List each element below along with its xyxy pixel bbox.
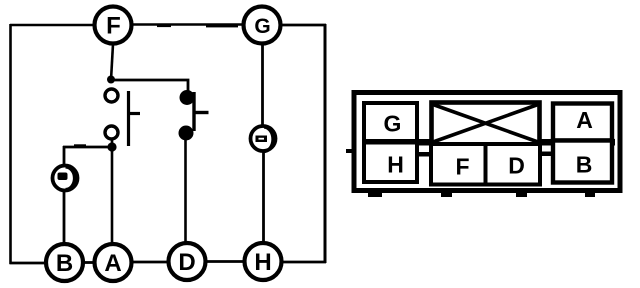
scan bump on top wire left of G [206,24,238,27]
answer box B [553,141,612,183]
junction dot below F [107,76,115,84]
scan speck below panel 3 [516,193,527,197]
answer box D [486,144,541,185]
svg-text:D: D [508,153,525,179]
scan blob on lamp branch wire [74,144,86,147]
switch S1 open contact top [105,89,118,102]
switch S1 actuator blade [127,91,130,146]
lamp L2 [251,126,276,152]
answer box crossed-out [432,103,540,145]
node G [244,7,281,44]
wire G down to lamp2 [261,44,264,126]
svg-text:A: A [576,107,593,133]
node A [95,244,132,281]
wire top frame right of G [282,24,326,27]
node F [95,7,132,44]
wire D to H [205,260,245,263]
wire top frame between F and G [133,23,242,26]
svg-text:F: F [455,154,469,180]
svg-text:F: F [106,13,121,40]
node B [46,244,83,281]
switch S2 tick [194,111,209,114]
junction dot above A [107,142,116,151]
answer box F [431,144,486,185]
svg-text:B: B [56,250,73,277]
switch S1 open contact bottom [105,126,118,139]
switch S2 contact top [180,90,195,105]
switch S2 blade [192,92,195,131]
wire down to lamp1 [63,146,66,165]
wire junction to right switch [111,80,188,91]
switch S2 contact bottom [179,126,194,141]
wire top frame left of F [10,24,93,27]
svg-text:H: H [387,152,404,178]
wire A to D [131,261,169,264]
svg-text:G: G [254,15,270,38]
scan speck below panel 1 [368,193,382,197]
answer box G [364,103,417,141]
svg-text:B: B [576,152,593,178]
bridge bar between H and F boxes [417,152,432,157]
wire B to A [83,261,95,264]
wire lamp2 to H [262,151,265,244]
wire junction to lamp branch [63,146,112,149]
answer box H [364,143,417,183]
wire F to junction [111,44,113,80]
wire right frame vertical [324,24,327,263]
lamp L1 [53,166,78,191]
node D [169,243,206,280]
scan speck below panel 2 [441,193,452,197]
bridge bar between D and B boxes [541,152,554,157]
wire left frame vertical [9,24,12,264]
scan speck below panel 4 [585,193,595,197]
wire S1 lower contact to A [111,139,114,244]
wire bottom frame to B [10,262,47,265]
wire lamp1 to B [63,191,66,244]
wire S2 to D [184,140,187,243]
answer box A [553,104,612,141]
scan speck left of panel [346,149,352,153]
divider band across panel [362,139,615,146]
switch S1 actuator tick [129,112,141,115]
answer panel outer box [354,93,620,191]
svg-text:A: A [104,250,121,277]
svg-text:D: D [178,249,195,276]
svg-text:G: G [384,111,402,137]
node H [245,243,282,280]
wire bottom frame H to right [283,261,326,264]
scan bump on top wire right of F [157,24,171,28]
svg-text:H: H [254,249,271,276]
